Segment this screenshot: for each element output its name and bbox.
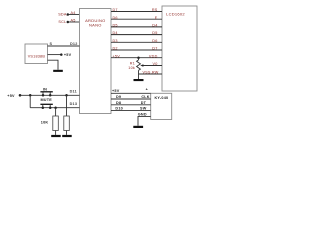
svg-text:D3: D3 (113, 39, 118, 43)
arduino U2 (80, 9, 112, 114)
node D11 junction (65, 94, 68, 97)
ground (133, 126, 143, 128)
node SDA (58, 13, 69, 17)
wire D6-E (111, 18, 162, 20)
node SCL (58, 20, 69, 24)
resistor R3 10K (64, 116, 70, 131)
wire to resistor R3 (66, 95, 68, 116)
svg-text:D7: D7 (152, 47, 157, 51)
wire D9-CLK (111, 98, 151, 100)
svg-text:D12: D12 (70, 42, 78, 46)
wire D2-D7 (111, 49, 162, 51)
node D13 junction (54, 106, 57, 109)
svg-text:SCL: SCL (58, 20, 66, 24)
svg-text:SDA: SDA (58, 13, 67, 17)
svg-text:VDD: VDD (149, 54, 158, 58)
lcd U3 (162, 6, 197, 91)
svg-text:D8: D8 (116, 101, 121, 105)
svg-text:E: E (155, 16, 158, 20)
resistor R2 10K (53, 116, 59, 131)
wire R3 to ground (66, 131, 68, 135)
wire V0 wiper (143, 65, 162, 67)
svg-text:LCD1602: LCD1602 (166, 11, 185, 16)
wire +5V rail row1 (20, 94, 80, 96)
wire +5V stub (48, 54, 62, 56)
wire row2 MUTE (30, 107, 79, 109)
svg-text:A4: A4 (71, 11, 76, 15)
wire D4-D5 (111, 34, 162, 36)
svg-text:10K: 10K (41, 120, 49, 124)
node junction drop to row2 (29, 94, 32, 97)
svg-text:D7: D7 (113, 8, 118, 12)
rotary encoder U5 KY-040 (151, 93, 172, 119)
svg-text:S: S (50, 42, 53, 46)
svg-text:D11: D11 (70, 89, 77, 93)
ground (53, 70, 63, 72)
svg-text:D4: D4 (152, 24, 157, 28)
wire to resistor R2 (55, 108, 57, 116)
wire gnd (48, 60, 59, 70)
wire drop (29, 95, 31, 107)
wire +5V-VDD (111, 57, 162, 59)
wire D5-D4 (111, 26, 162, 28)
svg-text:D2: D2 (113, 47, 118, 51)
svg-text:RS: RS (152, 8, 158, 12)
svg-text:D9: D9 (116, 95, 121, 99)
svg-text:D5: D5 (113, 24, 118, 28)
wire VSS,RW (139, 73, 163, 75)
svg-text:DT: DT (141, 101, 147, 105)
wire R2 to ground (55, 131, 57, 135)
svg-text:IN: IN (43, 87, 47, 91)
pushbutton IN (40, 87, 52, 96)
wire D8-DT (111, 104, 151, 106)
svg-text:D4: D4 (113, 31, 118, 35)
ground (62, 135, 71, 137)
svg-text:D5: D5 (152, 31, 157, 35)
wire D10-SW (111, 110, 151, 112)
svg-text:KY-040: KY-040 (154, 96, 168, 100)
ground (134, 79, 144, 81)
IR receiver U4 VS1838B (25, 44, 48, 64)
node +5V rail (7, 94, 21, 98)
svg-text:VSS,RW: VSS,RW (142, 71, 158, 75)
svg-text:D13: D13 (70, 102, 78, 106)
svg-text:+5V: +5V (7, 94, 15, 98)
pushbutton MUTE (40, 98, 52, 109)
wire pot to ground (138, 74, 140, 79)
svg-text:GND: GND (138, 113, 147, 117)
wire S-D12 (48, 45, 80, 47)
svg-text:10k: 10k (128, 66, 135, 70)
node pot top junction (137, 56, 140, 59)
node +5V (60, 53, 63, 56)
svg-text:+5V: +5V (64, 53, 72, 57)
wiper arrow (140, 64, 143, 66)
svg-text:SW: SW (140, 107, 147, 111)
wire GND (138, 116, 151, 125)
wire (68, 14, 80, 16)
potentiometer R1 10k (128, 58, 140, 74)
svg-text:A5: A5 (71, 18, 76, 22)
svg-text:CLK: CLK (141, 95, 149, 99)
wire D3-D6 (111, 41, 162, 43)
wire +5V-+ (111, 92, 151, 94)
svg-text:VS1838B: VS1838B (28, 54, 46, 58)
ground (51, 135, 61, 137)
wire (68, 21, 80, 23)
svg-text:+5V: +5V (112, 89, 120, 93)
svg-text:D6: D6 (113, 16, 118, 20)
svg-text:D6: D6 (152, 39, 157, 43)
svg-text:+5V: +5V (113, 54, 121, 58)
svg-text:D10: D10 (115, 107, 123, 111)
wire D7-RS (111, 11, 162, 13)
op-amp U1 (58, 11, 79, 24)
svg-text:V0: V0 (152, 62, 157, 66)
svg-text:R1: R1 (130, 61, 135, 65)
svg-text:MUTE: MUTE (40, 98, 52, 102)
svg-text:NANO: NANO (89, 22, 102, 27)
